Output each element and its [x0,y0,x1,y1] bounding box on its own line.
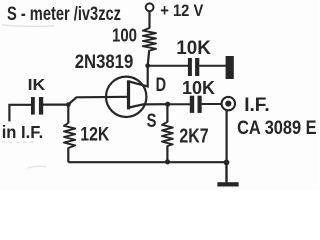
wire: source node to C3 [168,103,190,105]
capacitor C2 10K [188,58,199,76]
meter terminal bar [226,56,234,79]
Q1 source lead [129,104,168,107]
wire: input stub [9,105,31,122]
wire: R2 to bottom rail [67,148,69,163]
svg-text:IK: IK [28,77,47,94]
wire: R3 to bottom rail [166,146,168,163]
wire: C2 to meter bar [199,65,226,67]
+12V supply terminal [146,3,154,11]
wire: C3 to IF terminal [202,103,222,105]
capacitor C3 10K [190,96,202,113]
node: drain junction [145,63,150,68]
svg-text:S: S [147,111,157,132]
Q1 drain lead [129,66,148,87]
svg-text:CA 3089 E: CA 3089 E [237,117,317,139]
wire: C1 to gate node [43,103,68,105]
svg-text:10K: 10K [176,38,211,59]
wire: bottom rail [68,161,226,163]
svg-text:S - meter /iv3zcz: S - meter /iv3zcz [7,3,121,25]
wire: drain node to C2 [148,65,189,67]
svg-text:10K: 10K [182,78,215,98]
ground [217,182,238,186]
node: source junction [165,102,170,107]
scan smudge under title [2,25,54,168]
svg-text:100: 100 [112,25,137,46]
node: rail junction at R3 [165,159,170,164]
node: gate junction [66,102,71,107]
wire: R1 to drain node [148,50,150,66]
Q1 gate bar [127,80,130,109]
transistor Q1 2N3819 body [106,77,146,117]
resistor R3 2K7 [162,122,173,146]
svg-text:in I.F.: in I.F. [2,122,44,142]
wire: IF terminal down [226,110,228,162]
resistor R2 12K [64,123,75,148]
IF output terminal [222,97,235,110]
wire: gate node to R2 [67,105,69,124]
Q1 gate lead [68,97,128,105]
wire: source node to R3 [166,104,168,122]
wire: supply terminal to R1 [148,11,150,29]
svg-text:2N3819: 2N3819 [75,52,134,73]
capacitor C1 IK [31,97,43,115]
svg-text:D: D [156,75,167,96]
svg-text:+ 12 V: + 12 V [160,1,204,20]
svg-text:12K: 12K [80,124,109,145]
node: rail junction at ground [224,160,230,166]
wire: to ground [225,162,227,182]
svg-text:2K7: 2K7 [179,126,208,148]
svg-text:I.F.: I.F. [244,94,270,116]
resistor R1 100 [143,28,156,51]
